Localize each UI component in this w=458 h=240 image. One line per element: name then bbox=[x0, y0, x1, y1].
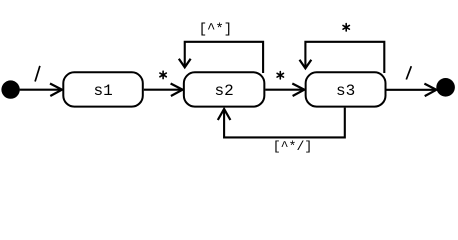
wire: s3 back to s2 bbox=[224, 108, 345, 138]
arrowhead into s3 top bbox=[300, 60, 312, 69]
wire: initial to s1 bbox=[20, 89, 62, 91]
state s3 bbox=[306, 72, 386, 106]
label / (final transition) bbox=[406, 66, 411, 79]
label * (s2 to s3) bbox=[277, 72, 283, 79]
final state (filled circle) bbox=[436, 78, 455, 97]
wire: s2 to s3 bbox=[265, 89, 304, 91]
arrowhead into s2 top bbox=[179, 59, 191, 68]
arrowhead into s2 bbox=[171, 84, 183, 97]
label * (s1 to s2) bbox=[160, 71, 166, 78]
arrowhead into s3 bbox=[292, 84, 304, 97]
arrowhead into s1 bbox=[50, 84, 62, 97]
svg-text:s1: s1 bbox=[93, 82, 112, 100]
arrowhead into s2 bottom bbox=[218, 109, 231, 120]
wire: s3 self-loop bbox=[305, 42, 384, 73]
label * (s3 self-loop) bbox=[343, 24, 349, 31]
svg-text:s2: s2 bbox=[214, 82, 233, 100]
wire: s3 to final bbox=[387, 89, 436, 91]
wire: s2 self-loop bbox=[185, 42, 263, 73]
label / (initial transition) bbox=[35, 66, 40, 82]
state s1 bbox=[63, 72, 143, 106]
initial state (filled circle) bbox=[1, 80, 19, 98]
wire: s1 to s2 bbox=[144, 89, 182, 91]
svg-text:[^*]: [^*] bbox=[199, 22, 233, 38]
state s2 bbox=[184, 72, 265, 106]
arrowhead into final bbox=[424, 84, 436, 97]
svg-text:s3: s3 bbox=[336, 82, 355, 100]
svg-text:[^*/]: [^*/] bbox=[273, 139, 313, 153]
